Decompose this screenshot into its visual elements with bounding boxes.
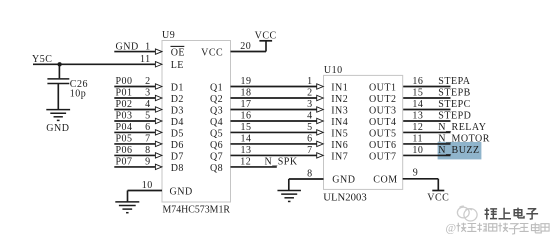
svg-text:OUT1: OUT1 (369, 82, 397, 93)
svg-text:IN3: IN3 (331, 105, 348, 116)
svg-text:3: 3 (145, 88, 151, 99)
svg-text:14: 14 (412, 99, 423, 110)
svg-text:OUT6: OUT6 (369, 140, 397, 151)
svg-text:7: 7 (145, 134, 151, 145)
svg-text:D1: D1 (171, 82, 184, 93)
svg-text:2: 2 (307, 88, 313, 99)
svg-text:IN2: IN2 (331, 94, 348, 105)
svg-text:LE: LE (171, 60, 184, 71)
svg-text:D7: D7 (171, 151, 184, 162)
svg-text:15: 15 (241, 122, 252, 133)
svg-text:11: 11 (140, 54, 151, 65)
svg-text:STEPD: STEPD (438, 111, 471, 122)
svg-text:COM: COM (373, 175, 397, 186)
svg-text:IN7: IN7 (331, 151, 348, 162)
svg-text:P04: P04 (116, 122, 133, 133)
svg-text:9: 9 (413, 168, 419, 179)
svg-text:Y5C: Y5C (32, 54, 52, 65)
svg-text:D2: D2 (171, 94, 184, 105)
svg-text:IN5: IN5 (331, 128, 348, 139)
svg-text:STEPB: STEPB (438, 88, 471, 99)
svg-text:N_SPK: N_SPK (265, 156, 298, 167)
svg-text:@: @ (446, 223, 457, 235)
svg-text:16: 16 (412, 76, 423, 87)
svg-text:11: 11 (412, 133, 423, 144)
svg-text:8: 8 (307, 169, 313, 180)
svg-text:D3: D3 (171, 105, 184, 116)
svg-text:D6: D6 (171, 140, 184, 151)
svg-text:Q8: Q8 (210, 163, 223, 174)
svg-text:Q5: Q5 (210, 128, 223, 139)
svg-text:N_BUZZ: N_BUZZ (438, 145, 479, 156)
svg-text:VCC: VCC (427, 192, 449, 203)
svg-text:12: 12 (412, 122, 423, 133)
svg-text:GND: GND (170, 186, 193, 197)
svg-text:OUT7: OUT7 (369, 151, 397, 162)
svg-text:13: 13 (241, 145, 252, 156)
svg-text:VCC: VCC (201, 48, 223, 59)
svg-text:U9: U9 (162, 30, 175, 41)
svg-text:P05: P05 (116, 134, 133, 145)
svg-text:P07: P07 (116, 157, 133, 168)
svg-text:STEPC: STEPC (438, 99, 471, 110)
svg-text:P01: P01 (116, 88, 133, 99)
svg-text:D4: D4 (171, 117, 184, 128)
svg-text:P06: P06 (116, 145, 133, 156)
svg-text:4: 4 (307, 111, 313, 122)
svg-text:6: 6 (307, 133, 313, 144)
svg-text:P03: P03 (116, 111, 133, 122)
svg-text:Q3: Q3 (210, 105, 223, 116)
svg-text:16: 16 (241, 111, 252, 122)
svg-text:9: 9 (145, 157, 151, 168)
svg-text:7: 7 (307, 145, 313, 156)
svg-text:GND: GND (116, 41, 139, 52)
svg-text:Q4: Q4 (210, 117, 223, 128)
svg-text:6: 6 (145, 122, 151, 133)
svg-text:GND: GND (332, 175, 355, 186)
svg-text:2: 2 (145, 76, 151, 87)
svg-text:13: 13 (412, 111, 423, 122)
svg-text:12: 12 (240, 156, 251, 167)
svg-text:OUT3: OUT3 (369, 105, 397, 116)
svg-text:M74HC573M1R: M74HC573M1R (163, 205, 231, 216)
svg-text:IN4: IN4 (331, 117, 348, 128)
svg-text:20: 20 (240, 41, 251, 52)
svg-text:Q6: Q6 (210, 140, 223, 151)
svg-text:P02: P02 (116, 99, 133, 110)
svg-text:D8: D8 (171, 163, 184, 174)
svg-text:STEPA: STEPA (438, 76, 470, 87)
svg-text:18: 18 (241, 88, 252, 99)
svg-text:Q1: Q1 (210, 82, 223, 93)
svg-text:N_RELAY: N_RELAY (438, 122, 486, 133)
svg-text:10p: 10p (70, 88, 87, 99)
svg-text:14: 14 (241, 133, 252, 144)
svg-text:1: 1 (145, 41, 151, 52)
svg-text:N_MOTOR: N_MOTOR (438, 134, 490, 145)
svg-text:5: 5 (307, 122, 313, 133)
svg-text:VCC: VCC (255, 31, 277, 42)
svg-text:4: 4 (145, 99, 151, 110)
svg-text:GND: GND (46, 123, 69, 134)
svg-text:U10: U10 (324, 65, 343, 76)
svg-text:IN6: IN6 (331, 140, 348, 151)
svg-text:OUT4: OUT4 (369, 117, 397, 128)
svg-text:15: 15 (412, 88, 423, 99)
svg-text:D5: D5 (171, 128, 184, 139)
svg-text:1: 1 (307, 76, 313, 87)
svg-text:8: 8 (145, 145, 151, 156)
svg-text:OUT2: OUT2 (369, 94, 397, 105)
svg-text:19: 19 (241, 76, 252, 87)
svg-text:OE: OE (171, 48, 185, 59)
svg-text:10: 10 (412, 145, 423, 156)
svg-text:3: 3 (307, 99, 313, 110)
svg-text:5: 5 (145, 111, 151, 122)
svg-text:10: 10 (142, 180, 153, 191)
svg-text:17: 17 (241, 99, 252, 110)
svg-text:P00: P00 (116, 76, 133, 87)
svg-text:Q7: Q7 (210, 151, 223, 162)
svg-text:Q2: Q2 (210, 94, 223, 105)
svg-text:ULN2003: ULN2003 (323, 192, 366, 203)
svg-text:IN1: IN1 (331, 82, 348, 93)
svg-text:OUT5: OUT5 (369, 128, 397, 139)
